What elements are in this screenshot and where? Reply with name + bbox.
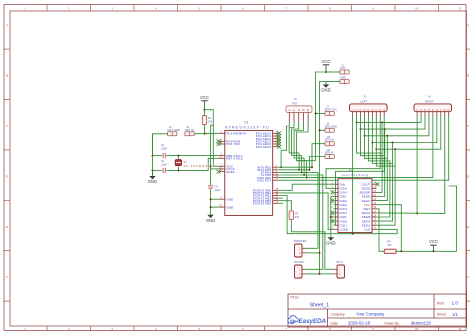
wire VCC branch to AVCC rail xyxy=(205,110,220,167)
junction fan L3 xyxy=(360,128,362,130)
svg-text:VCC: VCC xyxy=(321,59,330,64)
wire enc D drop xyxy=(303,158,305,175)
junction seg 3 xyxy=(384,128,386,130)
svg-text:VCC: VCC xyxy=(429,239,438,244)
junction enc xyxy=(306,177,308,179)
wire R1 bottom to RST node xyxy=(204,125,206,134)
svg-text:PD1 TXD: PD1 TXD xyxy=(226,142,240,146)
wire PB4 to R3 xyxy=(278,201,291,211)
svg-text:GND: GND xyxy=(206,218,216,223)
connector J6 RST GND xyxy=(168,132,177,136)
ground left xyxy=(152,170,154,176)
wire BTN W to PD2 xyxy=(312,144,325,168)
wire LEFT pin8 DIG0 xyxy=(326,116,380,188)
junction seg 6 xyxy=(392,142,394,144)
wire C2 to XTAL2 pin xyxy=(166,158,219,170)
wire BTN H to PD3 xyxy=(310,157,325,170)
svg-text:AREF: AREF xyxy=(226,170,235,174)
svg-text:CLK: CLK xyxy=(364,227,370,231)
connector J5 POT xyxy=(286,106,312,113)
svg-text:C: C xyxy=(467,124,469,128)
junction R2 VCC xyxy=(400,250,402,252)
svg-text:Your Company: Your Company xyxy=(356,312,385,317)
svg-text:R3: R3 xyxy=(295,212,299,216)
wire PB5 stub xyxy=(278,202,283,204)
svg-text:Sheet_1: Sheet_1 xyxy=(310,303,330,309)
wire BTN VCC feed xyxy=(316,112,325,114)
connector J10 BTN W xyxy=(325,142,334,146)
wire VCC to J1 xyxy=(326,71,340,73)
junction seg 2 xyxy=(381,121,383,123)
svg-text:Company:: Company: xyxy=(331,312,346,316)
wire gnd pin22 xyxy=(211,206,220,208)
svg-text:EasyEDA: EasyEDA xyxy=(299,318,327,325)
wire C3 to gnd pins xyxy=(210,189,212,215)
junction RIGHT drop xyxy=(416,212,418,214)
junction XTAL1-X1 xyxy=(177,155,179,157)
wire seg tap 4 xyxy=(386,136,388,159)
junction PD3 xyxy=(309,169,311,171)
svg-text:10: 10 xyxy=(415,327,419,331)
svg-text:F: F xyxy=(6,275,8,279)
wire XTAL2 net xyxy=(153,169,163,171)
wire AVCC vertical xyxy=(211,125,214,185)
svg-text:PC6 RESET#: PC6 RESET# xyxy=(226,131,246,135)
svg-text:BTN W: BTN W xyxy=(325,138,334,142)
wire J8 to RST node xyxy=(194,133,205,135)
connector J1 VCC xyxy=(340,70,349,74)
svg-text:C2: C2 xyxy=(161,159,165,163)
capacitor C3 xyxy=(208,185,213,187)
svg-text:MINUTES: MINUTES xyxy=(294,239,307,243)
svg-text:BTN GND: BTN GND xyxy=(325,124,337,128)
svg-text:B: B xyxy=(467,74,469,78)
junction enc xyxy=(303,174,305,176)
wire RIGHT pin6 xyxy=(372,116,437,143)
wire enc E drop xyxy=(306,161,308,178)
svg-text:A: A xyxy=(6,23,8,27)
junction fan L4 xyxy=(363,135,365,137)
junction VCC stem xyxy=(433,250,435,252)
svg-text:F: F xyxy=(467,275,469,279)
wire LEFT pin1 xyxy=(352,116,354,234)
wire PB0 to DIN xyxy=(278,184,333,190)
wire GND J2 feed xyxy=(326,82,340,85)
svg-text:C: C xyxy=(6,124,8,128)
connector HOURS xyxy=(295,265,303,278)
wire left gnd drop xyxy=(152,134,154,176)
junction AVCC pin tap xyxy=(210,165,212,167)
svg-text:U1: U1 xyxy=(244,121,248,125)
junction C1 gnd side xyxy=(152,155,154,157)
wire BTN GND xyxy=(320,129,325,131)
junction enc xyxy=(298,169,300,171)
wire POT pin3 xyxy=(292,122,302,156)
svg-text:LEFT: LEFT xyxy=(361,99,368,103)
wire enc C drop xyxy=(301,156,303,173)
connector MINUTES xyxy=(295,244,303,257)
svg-text:max7219kng: max7219kng xyxy=(342,173,368,177)
connector DP C xyxy=(337,265,345,278)
junction PD2 xyxy=(311,166,313,168)
junction seg 4 xyxy=(386,135,388,137)
capacitor C1 xyxy=(162,153,164,158)
svg-text:R1: R1 xyxy=(208,116,212,120)
resistor R2 xyxy=(384,249,396,253)
svg-text:220: 220 xyxy=(295,215,300,219)
wire DP gnd xyxy=(320,273,334,275)
wire PD4 to MINUTES xyxy=(278,172,318,248)
svg-text:RIGHT: RIGHT xyxy=(425,99,434,103)
junction enc xyxy=(280,166,282,168)
wire R1 top xyxy=(204,110,206,116)
junction U2 gnd xyxy=(330,216,332,218)
svg-text:deniso120: deniso120 xyxy=(411,321,431,326)
wire AVCC stub xyxy=(211,168,220,170)
junction XTAL2-X1 xyxy=(177,169,179,171)
wire PB3 stub xyxy=(278,197,283,199)
EasyEDA logo xyxy=(288,316,298,324)
connector J11 BTN H xyxy=(325,155,334,159)
wire U2 gnd pins xyxy=(331,197,334,238)
svg-text:GND: GND xyxy=(340,76,346,80)
svg-text:ATMEGA328P-PU: ATMEGA328P-PU xyxy=(225,126,269,130)
connector J7 BTN VCC xyxy=(325,111,334,115)
resistor R3 xyxy=(289,211,293,220)
svg-text:GND: GND xyxy=(326,240,336,245)
wire R3 to DP xyxy=(291,220,333,270)
wire MINUTES gnd xyxy=(306,252,320,254)
wire J6 to gnd rail xyxy=(153,134,168,156)
wire seg tap 3 xyxy=(384,129,386,156)
svg-text:AIN1 PD7: AIN1 PD7 xyxy=(257,178,272,182)
wire POT pin1 xyxy=(281,122,289,150)
junction BTN GND rail xyxy=(319,129,321,131)
svg-text:Date:: Date: xyxy=(331,321,339,325)
wire HOURS gnd xyxy=(306,253,320,274)
svg-text:PCINT5 PB5: PCINT5 PB5 xyxy=(253,201,272,205)
wire C1 to pin9 xyxy=(166,155,219,157)
wire ISET to R2 xyxy=(377,209,385,252)
wire PB2 to CLK xyxy=(278,196,397,234)
wire POT pin5 xyxy=(297,122,309,161)
svg-text:1/1: 1/1 xyxy=(452,312,458,317)
svg-text:LOAD: LOAD xyxy=(340,227,349,231)
connector J2 GND xyxy=(340,80,349,84)
svg-text:REV:: REV: xyxy=(437,301,445,305)
svg-text:D: D xyxy=(467,174,469,178)
svg-text:PB7 XTAL2: PB7 XTAL2 xyxy=(226,156,243,160)
title block xyxy=(288,294,467,327)
wire RIGHT pin4 xyxy=(364,116,429,136)
junction hours gnd xyxy=(319,273,321,275)
wire PD3 net xyxy=(278,169,309,171)
svg-text:E: E xyxy=(6,225,8,229)
junction fan L7 xyxy=(375,148,377,150)
wire RST to pin1 xyxy=(205,132,220,134)
svg-text:Drawn By:: Drawn By: xyxy=(385,321,400,325)
svg-text:2020-02-18: 2020-02-18 xyxy=(348,321,371,326)
wire LEFT pin9 DIG1 xyxy=(334,116,385,225)
GND flag top center xyxy=(325,83,327,85)
svg-text:Sheet:: Sheet: xyxy=(437,313,447,317)
IC U1 ATMEGA328P-PU xyxy=(225,130,273,215)
junction C2 gnd side xyxy=(152,169,154,171)
wire far right drop xyxy=(449,186,457,251)
wire seg tap 7 xyxy=(394,149,396,166)
wire RIGHT pin3 xyxy=(361,116,426,129)
wire PD2 net xyxy=(278,166,312,168)
wire gnd pin8 xyxy=(211,198,220,200)
svg-text:10k: 10k xyxy=(387,243,392,247)
wire PD7 long xyxy=(278,116,449,180)
wire POT pin2 xyxy=(289,122,299,153)
wire seg tap 6 xyxy=(392,143,394,164)
svg-text:16.000MHZ: 16.000MHZ xyxy=(184,164,208,168)
wire XTAL1 net xyxy=(153,155,163,157)
svg-text:X1: X1 xyxy=(184,160,188,164)
svg-text:POT: POT xyxy=(292,102,298,106)
junction fan L2 xyxy=(356,121,358,123)
junction fan L6 xyxy=(371,142,373,144)
svg-text:DP C: DP C xyxy=(337,260,344,264)
svg-text:1.0: 1.0 xyxy=(452,301,459,306)
IC U2 MAX7219 xyxy=(338,179,372,233)
svg-text:RST IN: RST IN xyxy=(185,128,194,132)
junction BTN VCC rail xyxy=(315,112,317,114)
wire seg tap 2 xyxy=(381,122,383,153)
svg-text:11: 11 xyxy=(459,7,462,11)
junction minutes gnd xyxy=(319,252,321,254)
svg-text:VCC: VCC xyxy=(200,95,209,100)
wire VCC rail left drop xyxy=(297,72,326,161)
svg-text:22pF: 22pF xyxy=(161,147,167,151)
svg-text:BTN H: BTN H xyxy=(325,151,333,155)
wire PD5 to HOURS xyxy=(278,175,323,269)
wire PB1 to LOAD xyxy=(278,193,333,229)
svg-text:HOURS: HOURS xyxy=(294,260,304,264)
junction LEFT bus xyxy=(352,233,354,235)
svg-text:E: E xyxy=(467,225,469,229)
wire LEFT pin7 seg xyxy=(376,116,395,225)
wire LEFT pin4 seg xyxy=(364,116,387,201)
wire enc A drop xyxy=(280,150,282,167)
svg-text:B: B xyxy=(302,109,306,111)
svg-text:TITLE:: TITLE: xyxy=(290,296,300,300)
svg-text:RST GND: RST GND xyxy=(168,128,180,132)
svg-text:B: B xyxy=(6,74,8,78)
svg-text:VCC: VCC xyxy=(340,66,346,70)
wire RIGHT pin2 xyxy=(357,116,422,122)
svg-text:C3: C3 xyxy=(215,184,219,188)
ground U2 xyxy=(330,236,332,238)
svg-text:R2: R2 xyxy=(387,240,391,244)
svg-text:GND: GND xyxy=(148,179,158,184)
svg-text:BTN VCC: BTN VCC xyxy=(325,107,337,111)
wire PD6 long xyxy=(278,116,433,178)
svg-text:22pF: 22pF xyxy=(161,163,167,167)
ground U1 xyxy=(210,214,212,216)
junction GND22 xyxy=(210,206,212,208)
svg-text:GND: GND xyxy=(226,197,234,201)
wire U2 gnd pin9 xyxy=(331,216,334,218)
junction GND8 xyxy=(210,198,212,200)
junction enc xyxy=(301,171,303,173)
svg-text:C1: C1 xyxy=(161,143,165,147)
junction seg 7 xyxy=(394,148,396,150)
resistor R1 xyxy=(202,116,206,125)
connector J9 BTN GND xyxy=(325,128,334,132)
svg-text:PC5 ADC5: PC5 ADC5 xyxy=(256,145,272,149)
junction VCC top xyxy=(325,71,327,73)
wire POT pin4 xyxy=(294,122,304,158)
wire LEFT pin2 seg xyxy=(357,116,383,192)
connector J4 RIGHT xyxy=(414,104,452,112)
svg-text:GND: GND xyxy=(321,88,331,93)
wire RIGHT pin1 drop xyxy=(416,116,418,213)
svg-text:GND: GND xyxy=(226,205,234,209)
svg-text:11: 11 xyxy=(459,327,462,331)
svg-text:22pF: 22pF xyxy=(215,188,221,192)
svg-text:A: A xyxy=(467,23,469,27)
wire GND rail drop xyxy=(320,82,327,253)
wire enc B drop xyxy=(298,153,300,170)
svg-text:A: A xyxy=(287,109,291,111)
junction VCC-R1 branch xyxy=(204,109,206,111)
connector J8 RST IN xyxy=(185,132,194,136)
wire LEFT pin5 seg xyxy=(368,116,390,217)
connector J3 LEFT xyxy=(350,104,388,112)
wire LEFT pin6 seg xyxy=(372,116,392,221)
svg-text:10k: 10k xyxy=(208,119,213,123)
wire LEFT pin3 seg xyxy=(361,116,385,197)
wire R2 to VCC xyxy=(396,250,457,252)
wire RIGHT pin8 SEGG xyxy=(377,116,445,213)
wire RIGHT pin7 xyxy=(376,116,441,149)
svg-text:D: D xyxy=(6,174,8,178)
svg-text:10: 10 xyxy=(415,7,419,11)
wire V+ down xyxy=(377,205,402,252)
crystal X1 xyxy=(177,156,179,159)
junction RST node xyxy=(204,133,206,135)
capacitor C2 xyxy=(162,168,164,173)
